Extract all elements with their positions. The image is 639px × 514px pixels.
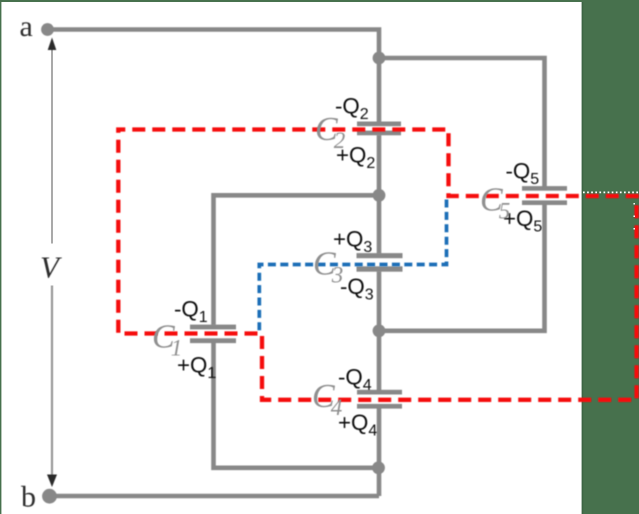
wire: middle column J2 to C3 <box>377 195 382 253</box>
wire: middle column J1 to C2 <box>377 58 382 122</box>
junction J2 <box>373 189 386 202</box>
wire: right branch top, J1 to C5 column <box>379 58 545 187</box>
svg-text:a: a <box>20 10 33 43</box>
wire: bottom from node b to middle column <box>50 494 380 499</box>
arrowhead up at node a <box>48 38 57 51</box>
voltage arrow line V (bottom segment) <box>51 286 54 477</box>
capacitor C5 plates <box>522 186 567 205</box>
red dashed loop through C2, C5, C4, C1 <box>118 130 636 400</box>
green top border <box>0 0 639 2</box>
capacitor C1 plates <box>190 325 236 343</box>
capacitor C3 plates <box>357 253 403 272</box>
node b dot <box>42 489 57 504</box>
svg-text:b: b <box>21 481 36 514</box>
svg-text:V: V <box>40 250 62 285</box>
wire: C1 bottom down and right to J4 <box>214 343 380 468</box>
wire: left branch J2 to C1 <box>214 195 380 324</box>
capacitor C4 plates <box>357 390 402 409</box>
white dotted trace above red line over green band <box>583 191 638 193</box>
wire: top from node a to middle column, down to junction J1 <box>48 30 380 59</box>
junction J1 <box>373 52 386 65</box>
capacitor C2 plates <box>357 122 401 136</box>
wire: middle column C3 to J3 <box>377 272 382 331</box>
green left border <box>0 0 1 514</box>
junction J4 <box>372 461 385 474</box>
node a dot <box>41 23 54 36</box>
wire: middle column J3 to C4 <box>377 331 382 390</box>
wire: middle column C2 to J2 <box>377 135 382 195</box>
voltage arrow line V (top segment) <box>51 46 53 244</box>
white dot specks on right red vertical <box>633 203 635 230</box>
wire: C5 column bottom down and left to J3 <box>379 205 545 331</box>
wire: middle column C4 to J4 and down to bottom wire <box>377 409 382 497</box>
green backdrop edge line <box>582 0 584 514</box>
blue dashed path through C3 <box>259 200 446 332</box>
arrowhead down at node b <box>47 475 57 488</box>
green backdrop band (right side) <box>582 0 639 514</box>
junction J3 <box>373 324 386 337</box>
